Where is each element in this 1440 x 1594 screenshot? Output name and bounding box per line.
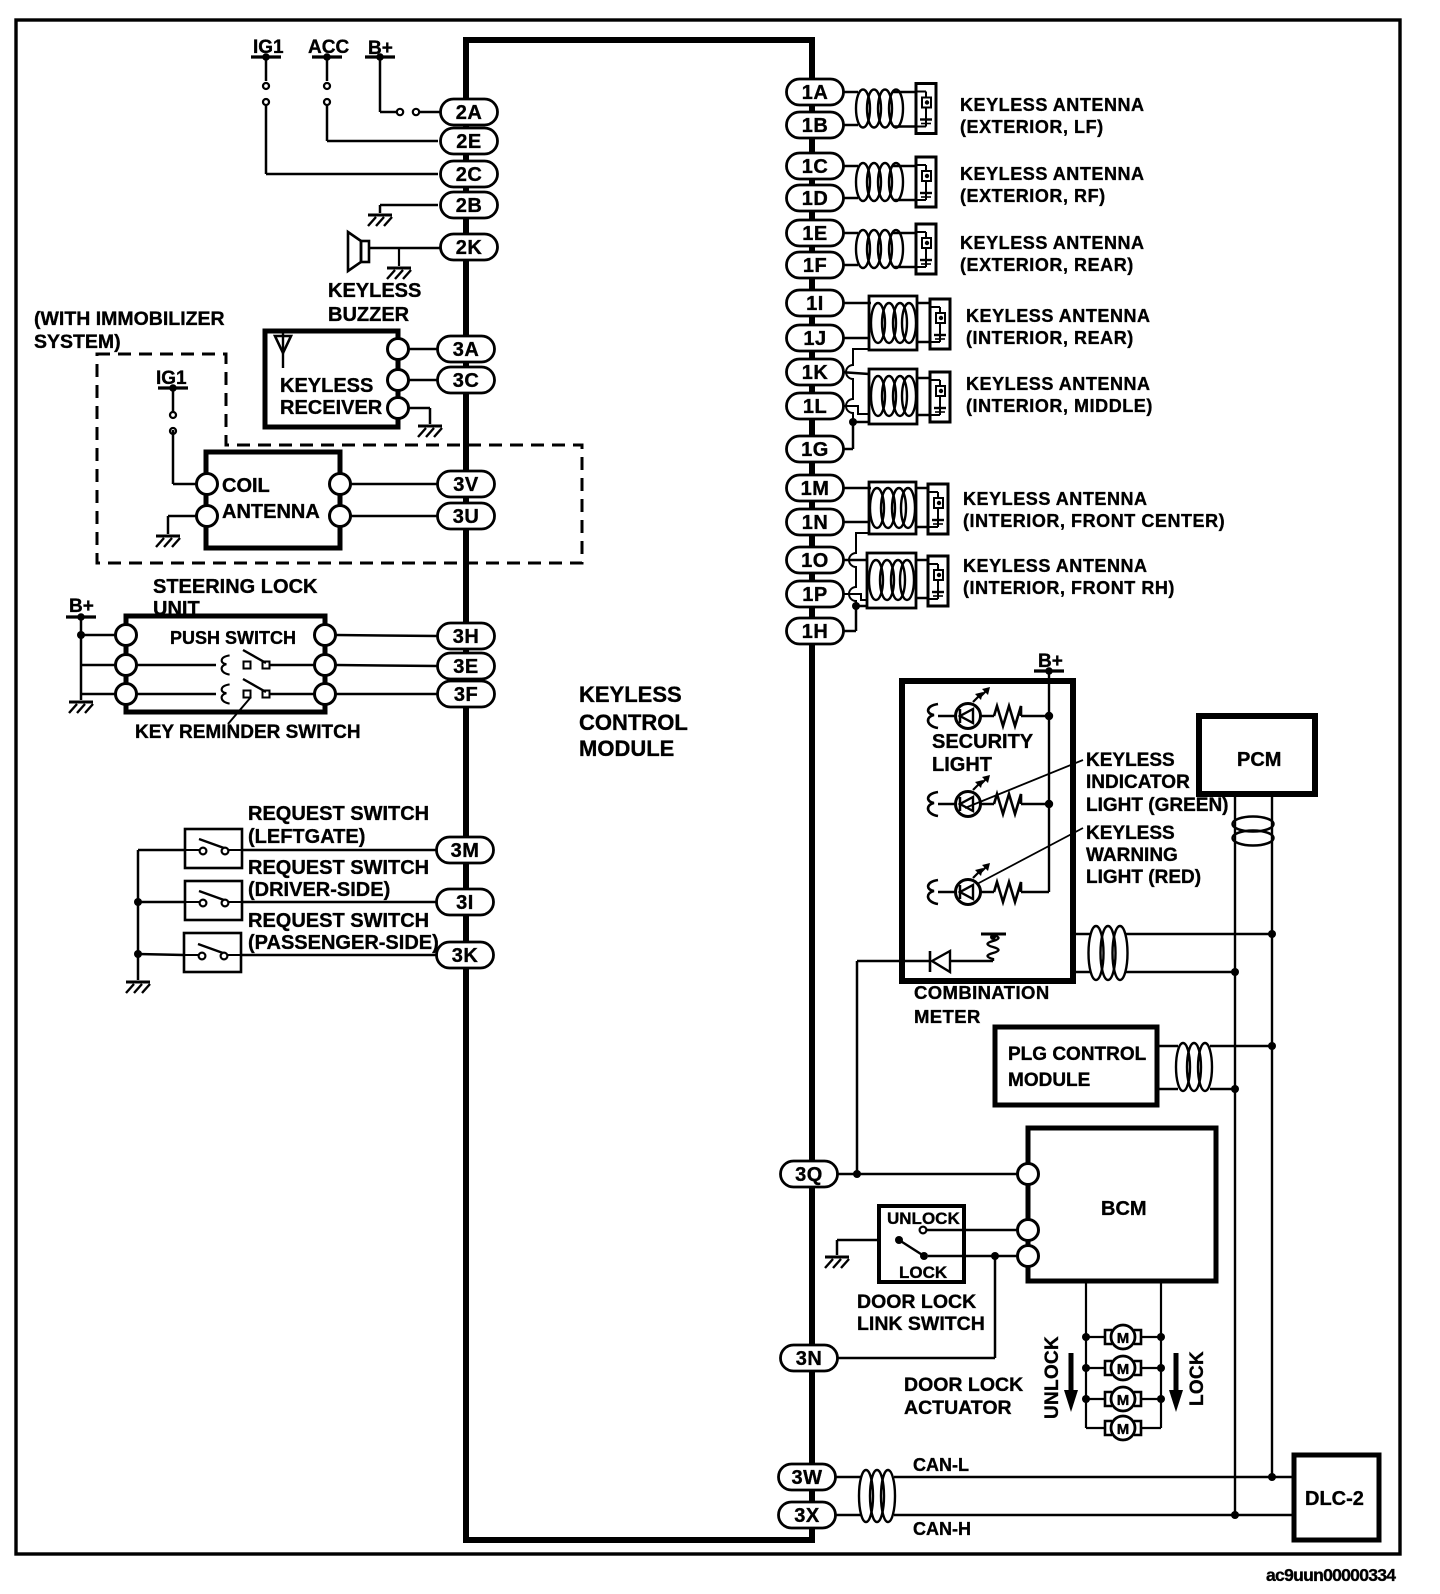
svg-text:1K: 1K [802,362,829,384]
svg-text:1H: 1H [802,621,829,643]
svg-text:3N: 3N [796,1348,823,1370]
svg-text:1E: 1E [802,223,827,245]
svg-text:KEYLESS: KEYLESS [328,280,421,302]
svg-text:ACTUATOR: ACTUATOR [904,1397,1012,1419]
svg-text:M: M [1117,1330,1130,1347]
svg-text:1L: 1L [803,396,827,418]
svg-text:WARNING: WARNING [1086,845,1178,866]
svg-text:1F: 1F [803,255,827,277]
svg-text:ANTENNA: ANTENNA [222,501,320,523]
svg-text:2K: 2K [456,237,483,259]
svg-text:(DRIVER-SIDE): (DRIVER-SIDE) [248,879,390,901]
svg-text:MODULE: MODULE [1008,1070,1090,1091]
svg-text:DOOR LOCK: DOOR LOCK [904,1374,1023,1396]
svg-text:2B: 2B [456,195,483,217]
svg-text:2C: 2C [456,164,483,186]
svg-text:COMBINATION: COMBINATION [914,982,1050,1003]
svg-text:PUSH SWITCH: PUSH SWITCH [170,628,296,648]
svg-text:UNLOCK: UNLOCK [887,1209,960,1228]
svg-text:REQUEST SWITCH: REQUEST SWITCH [248,803,429,825]
svg-text:1B: 1B [802,115,829,137]
svg-text:STEERING LOCK: STEERING LOCK [153,576,318,598]
svg-text:3V: 3V [453,474,479,496]
svg-text:2E: 2E [456,131,481,153]
svg-text:3M: 3M [451,840,480,862]
svg-text:3Q: 3Q [795,1164,823,1186]
svg-text:KEYLESS ANTENNA: KEYLESS ANTENNA [960,164,1145,184]
svg-text:3F: 3F [454,684,478,706]
svg-text:1O: 1O [801,550,829,572]
svg-text:RECEIVER: RECEIVER [280,397,383,419]
svg-text:KEYLESS ANTENNA: KEYLESS ANTENNA [963,489,1148,509]
svg-text:3H: 3H [453,626,480,648]
svg-text:UNLOCK: UNLOCK [1042,1336,1063,1419]
svg-text:LIGHT (GREEN): LIGHT (GREEN) [1086,795,1229,816]
svg-text:METER: METER [914,1006,981,1027]
svg-text:DOOR LOCK: DOOR LOCK [857,1291,976,1313]
svg-text:KEYLESS: KEYLESS [280,375,373,397]
svg-text:LOCK: LOCK [1187,1351,1208,1406]
svg-text:LINK SWITCH: LINK SWITCH [857,1313,985,1335]
svg-text:KEYLESS ANTENNA: KEYLESS ANTENNA [960,233,1145,253]
svg-text:(EXTERIOR, REAR): (EXTERIOR, REAR) [960,255,1134,275]
svg-text:1A: 1A [802,82,829,104]
svg-text:(EXTERIOR, RF): (EXTERIOR, RF) [960,186,1106,206]
svg-text:(LEFTGATE): (LEFTGATE) [248,826,365,848]
svg-text:INDICATOR: INDICATOR [1086,772,1190,793]
svg-text:KEYLESS ANTENNA: KEYLESS ANTENNA [966,306,1151,326]
svg-text:ac9uun00000334: ac9uun00000334 [1266,1565,1396,1585]
svg-text:CAN-H: CAN-H [913,1519,971,1539]
svg-text:LOCK: LOCK [899,1263,948,1282]
svg-text:3A: 3A [453,339,480,361]
svg-text:CAN-L: CAN-L [913,1455,969,1475]
svg-text:KEYLESS ANTENNA: KEYLESS ANTENNA [966,374,1151,394]
svg-text:1N: 1N [802,512,829,534]
svg-text:REQUEST SWITCH: REQUEST SWITCH [248,910,429,932]
svg-text:1I: 1I [806,293,824,315]
svg-text:(PASSENGER-SIDE): (PASSENGER-SIDE) [248,932,439,954]
svg-text:REQUEST SWITCH: REQUEST SWITCH [248,857,429,879]
svg-text:3W: 3W [792,1467,823,1489]
svg-text:MODULE: MODULE [579,736,674,761]
svg-text:1M: 1M [801,478,830,500]
svg-text:M: M [1117,1392,1130,1409]
svg-text:3K: 3K [452,945,479,967]
svg-text:1J: 1J [803,328,826,350]
svg-text:KEYLESS ANTENNA: KEYLESS ANTENNA [960,95,1145,115]
svg-text:LIGHT: LIGHT [932,754,992,776]
svg-text:CONTROL: CONTROL [579,710,688,735]
svg-text:1C: 1C [802,156,829,178]
svg-text:BCM: BCM [1101,1198,1147,1220]
svg-text:1D: 1D [802,188,829,210]
svg-text:DLC-2: DLC-2 [1305,1488,1364,1510]
svg-text:KEYLESS ANTENNA: KEYLESS ANTENNA [963,556,1148,576]
svg-text:2A: 2A [456,102,483,124]
svg-text:LIGHT (RED): LIGHT (RED) [1086,867,1201,888]
svg-text:PCM: PCM [1237,749,1281,771]
svg-text:(INTERIOR, FRONT RH): (INTERIOR, FRONT RH) [963,578,1175,598]
svg-text:3C: 3C [453,370,480,392]
svg-text:COIL: COIL [222,475,270,497]
svg-text:(INTERIOR, REAR): (INTERIOR, REAR) [966,328,1134,348]
svg-text:(EXTERIOR, LF): (EXTERIOR, LF) [960,117,1104,137]
svg-text:3E: 3E [453,656,478,678]
svg-text:(WITH IMMOBILIZER: (WITH IMMOBILIZER [34,308,225,330]
svg-text:1P: 1P [802,584,827,606]
svg-text:BUZZER: BUZZER [328,304,410,326]
svg-text:KEYLESS: KEYLESS [579,682,682,707]
svg-text:PLG CONTROL: PLG CONTROL [1008,1044,1147,1065]
svg-text:3U: 3U [453,506,480,528]
svg-text:M: M [1117,1421,1130,1438]
svg-text:(INTERIOR, MIDDLE): (INTERIOR, MIDDLE) [966,396,1153,416]
svg-text:3I: 3I [456,892,474,914]
svg-text:SECURITY: SECURITY [932,731,1034,753]
svg-text:3X: 3X [794,1505,820,1527]
svg-text:KEYLESS: KEYLESS [1086,823,1175,844]
svg-text:1G: 1G [801,439,829,461]
svg-text:KEY REMINDER SWITCH: KEY REMINDER SWITCH [135,722,361,743]
svg-text:SYSTEM): SYSTEM) [34,331,121,353]
svg-text:(INTERIOR, FRONT CENTER): (INTERIOR, FRONT CENTER) [963,511,1225,531]
svg-text:M: M [1117,1361,1130,1378]
svg-text:KEYLESS: KEYLESS [1086,750,1175,771]
